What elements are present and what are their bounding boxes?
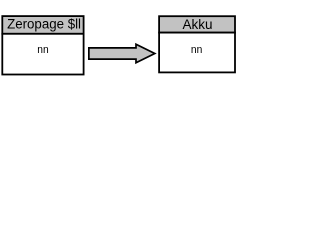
box: Akku body cell: [159, 33, 235, 73]
svg-text:nn: nn: [191, 44, 202, 56]
svg-text:Akku: Akku: [183, 17, 213, 33]
box: Akku header cell: [159, 16, 235, 32]
box: Zeropage body cell: [2, 34, 83, 75]
arrow: [89, 44, 155, 63]
svg-text:nn: nn: [37, 44, 48, 56]
svg-text:Zeropage $ll: Zeropage $ll: [7, 17, 81, 33]
box: Zeropage header cell: [2, 16, 83, 34]
